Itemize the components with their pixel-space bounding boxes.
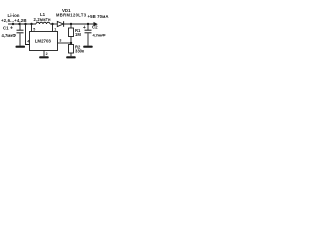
svg-text:LM2703: LM2703 xyxy=(35,39,52,44)
svg-text:5: 5 xyxy=(33,28,35,32)
capacitor C2 xyxy=(83,24,106,46)
svg-text:+: + xyxy=(83,25,86,31)
op-amp U1 LM2703 box xyxy=(30,32,58,51)
svg-text:MBRM120LT3: MBRM120LT3 xyxy=(56,13,87,18)
svg-text:1М: 1М xyxy=(75,32,81,37)
node VIN pin5 junction xyxy=(30,23,32,25)
ground chip xyxy=(39,56,49,58)
inductor L1 xyxy=(34,12,51,24)
svg-text:2: 2 xyxy=(46,52,48,56)
svg-text:3: 3 xyxy=(59,38,61,42)
ground C1 xyxy=(16,46,26,48)
svg-text:+2,6...+4,2В: +2,6...+4,2В xyxy=(1,18,27,23)
node input terminal xyxy=(12,23,14,25)
svg-text:+5В 70мА: +5В 70мА xyxy=(88,14,109,19)
node FB xyxy=(70,42,72,44)
svg-text:C1: C1 xyxy=(3,26,9,31)
svg-text:330к: 330к xyxy=(75,49,85,54)
wire diode to output xyxy=(64,23,94,25)
wire SHDN pin4 to rail xyxy=(26,24,30,45)
node R1 junction xyxy=(70,23,72,25)
svg-text:2,2мкГн: 2,2мкГн xyxy=(34,17,51,22)
diode VD1 MBRM120LT3 xyxy=(56,8,87,27)
node SW pin1 junction xyxy=(51,23,53,25)
ground R2 xyxy=(66,56,76,58)
node SHDN junction xyxy=(24,23,26,25)
resistor R1 xyxy=(69,24,82,45)
node C2 junction xyxy=(87,23,89,25)
svg-text:C2: C2 xyxy=(92,24,98,29)
wire input rail left xyxy=(8,23,36,25)
ground C2 xyxy=(83,46,93,48)
svg-text:+: + xyxy=(10,25,13,31)
wire FB pin3 xyxy=(58,42,72,44)
capacitor C1 xyxy=(2,24,24,46)
svg-text:4,7мкФ: 4,7мкФ xyxy=(93,32,107,37)
background xyxy=(0,0,110,70)
wire inductor to diode xyxy=(50,23,57,25)
svg-text:4: 4 xyxy=(27,39,29,43)
svg-text:1: 1 xyxy=(54,28,56,32)
wire GND pin2 xyxy=(43,51,45,57)
svg-text:4,7мкФ: 4,7мкФ xyxy=(2,33,17,38)
resistor R2 xyxy=(69,44,85,56)
wire SW pin1 xyxy=(52,24,54,32)
output arrow terminal xyxy=(94,22,98,27)
node C1 junction xyxy=(18,23,20,25)
wire VIN pin5 xyxy=(31,24,33,32)
